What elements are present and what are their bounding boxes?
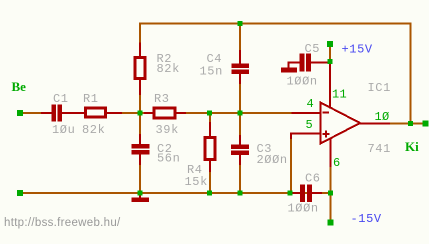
svg-text:2ØØn: 2ØØn — [257, 153, 288, 167]
svg-text:39k: 39k — [156, 123, 179, 137]
svg-text:82k: 82k — [157, 62, 180, 76]
terminal Be input — [17, 110, 23, 116]
op-amp pin 11 lead — [329, 62, 331, 109]
terminal ground rail — [17, 190, 23, 196]
ground bar for C5 — [281, 68, 297, 73]
svg-text:15n: 15n — [200, 65, 223, 79]
svg-text:741: 741 — [368, 142, 391, 156]
terminal -15V — [328, 220, 334, 226]
wire +15V feed — [329, 46, 331, 62]
svg-text:C6: C6 — [305, 172, 321, 186]
wire op-amp pin 6 drop — [330, 166, 332, 192]
svg-text:+15V: +15V — [342, 43, 373, 57]
capacitor C4 — [232, 50, 250, 84]
op-amp pin 4 lead — [292, 112, 321, 114]
svg-text:6: 6 — [333, 156, 341, 170]
svg-text:1ØØn: 1ØØn — [287, 75, 318, 89]
wire output to Ki — [359, 123, 425, 125]
svg-text:82k: 82k — [82, 123, 105, 137]
junction node ground C2 — [138, 191, 143, 196]
wire C4-C3 branch middle — [239, 73, 241, 146]
svg-text:C5: C5 — [305, 42, 321, 56]
resistor R4 — [205, 122, 215, 172]
ground bar on bottom rail — [132, 195, 150, 202]
capacitor C6 — [292, 185, 322, 203]
junction node C5 / +15V — [328, 59, 333, 64]
wire node A vertical lower — [139, 153, 141, 194]
svg-text:56n: 56n — [157, 152, 180, 166]
junction node A — [138, 111, 143, 116]
terminal +15V — [327, 41, 333, 47]
wire -15V drop — [330, 193, 332, 222]
svg-text:1ØØn: 1ØØn — [288, 202, 319, 216]
capacitor C2 — [132, 134, 150, 165]
wire op-amp pin 5 drop — [290, 136, 292, 192]
wire bottom rail — [23, 192, 331, 194]
junction node C6 / -15V — [328, 191, 333, 196]
svg-text:1Ø: 1Ø — [375, 110, 390, 124]
op-amp pin 6 lead — [330, 139, 332, 168]
capacitor C5 — [289, 54, 330, 72]
wire feedback top rail — [140, 24, 411, 124]
terminal Ki output — [423, 121, 429, 127]
svg-text:11: 11 — [332, 88, 347, 102]
svg-text:5: 5 — [306, 118, 314, 132]
wire R4 branch — [209, 114, 211, 192]
svg-text:R1: R1 — [83, 92, 99, 106]
resistor R1 — [86, 108, 123, 117]
svg-text:1Øu: 1Øu — [52, 123, 75, 137]
op-amp plus sign — [323, 131, 330, 138]
svg-text:-15V: -15V — [351, 212, 382, 226]
op-amp pin 5 lead — [291, 134, 320, 140]
wire node A vertical upper — [139, 24, 141, 145]
wire C4 branch upper — [239, 24, 241, 65]
wire R3 to node B to op-amp pin 4 — [176, 112, 292, 114]
junction node top rail / C4 — [238, 21, 243, 26]
junction node ground C3 — [238, 191, 243, 196]
junction node output feedback — [408, 121, 413, 126]
junction node ground R4 — [207, 191, 212, 196]
junction node R4 top — [207, 111, 212, 116]
svg-text:15k: 15k — [185, 175, 208, 189]
wire C3 branch lower — [239, 153, 241, 194]
junction node ground pin5 — [288, 191, 293, 196]
svg-text:IC1: IC1 — [368, 81, 391, 95]
op-amp output lead pin 10 — [359, 123, 390, 125]
svg-text:4: 4 — [307, 97, 315, 111]
svg-text:C1: C1 — [53, 92, 69, 106]
wire R1 to node A to R3 — [121, 112, 154, 114]
capacitor C1 — [41, 105, 84, 122]
svg-text:http://bss.freeweb.hu/: http://bss.freeweb.hu/ — [4, 217, 121, 229]
op-amp minus sign — [323, 112, 330, 114]
resistor R3 — [144, 108, 186, 118]
svg-text:Ki: Ki — [405, 139, 419, 154]
svg-text:Be: Be — [12, 79, 27, 94]
capacitor C3 — [231, 135, 249, 165]
wire input Be to C1 — [23, 112, 43, 114]
svg-text:R3: R3 — [154, 92, 170, 106]
op-amp U1 triangle — [321, 103, 361, 144]
junction node B — [238, 111, 243, 116]
resistor R2 — [135, 43, 145, 96]
